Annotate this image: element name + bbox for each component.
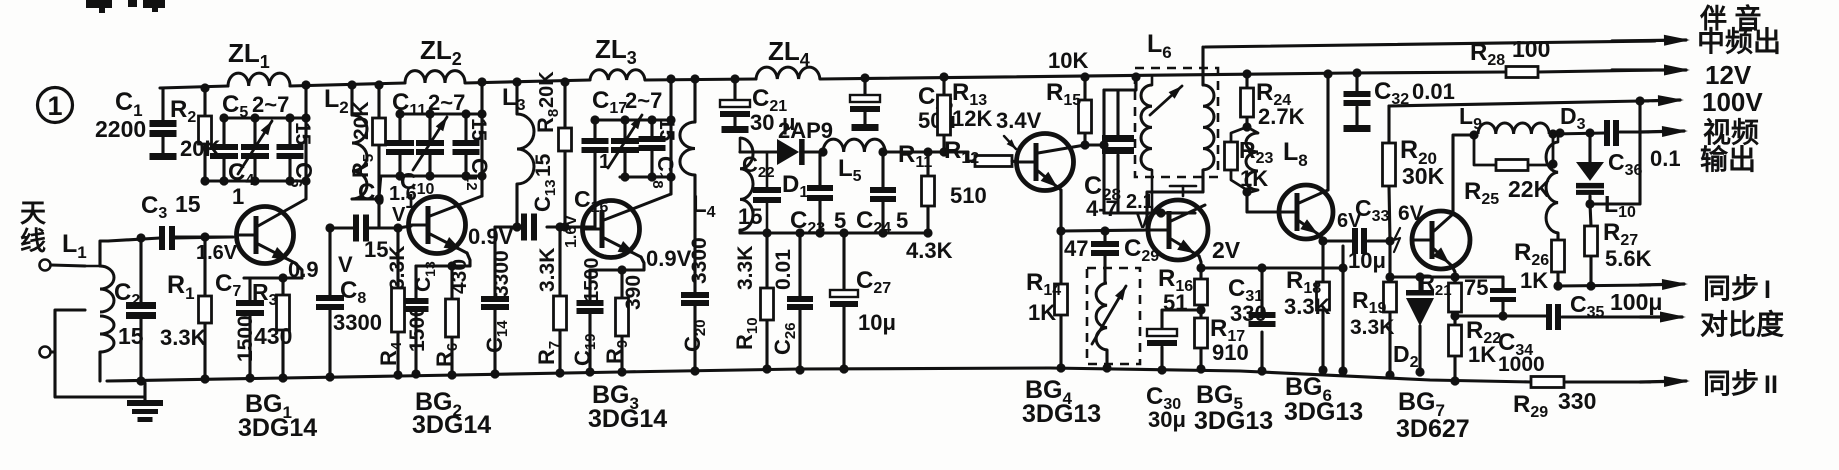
wire BG2 collector bbox=[480, 82, 483, 196]
transformer L6 primary bbox=[1151, 77, 1154, 85]
wire BG6 emitter to C33 bbox=[1323, 239, 1352, 242]
wire BG2 emitter bbox=[416, 253, 470, 266]
ground bbox=[143, 383, 146, 400]
capacitor C23 bbox=[818, 152, 821, 185]
wire BG7 emitter bbox=[1452, 266, 1455, 277]
capacitor C4 bbox=[222, 118, 225, 144]
svg-text:390: 390 bbox=[622, 275, 645, 310]
resistor R26 bbox=[1556, 233, 1559, 240]
svg-text:1K: 1K bbox=[1468, 342, 1496, 367]
capacitor C7 bbox=[248, 278, 251, 300]
svg-text:30: 30 bbox=[750, 110, 774, 135]
wire tank top bbox=[1104, 77, 1136, 90]
wire L6 secondary to BG5 base bbox=[1147, 170, 1203, 230]
svg-text:910: 910 bbox=[1212, 340, 1249, 365]
capacitor C19 bbox=[588, 270, 591, 300]
svg-text:输出: 输出 bbox=[1700, 143, 1756, 175]
svg-text:20K: 20K bbox=[536, 71, 558, 108]
capacitor C29 bbox=[1103, 231, 1106, 241]
svg-text:47: 47 bbox=[1064, 236, 1088, 261]
svg-text:3.3K: 3.3K bbox=[1284, 294, 1331, 319]
svg-text:2.1: 2.1 bbox=[1126, 191, 1154, 213]
capacitor C35 bbox=[1546, 304, 1552, 330]
svg-text:天: 天 bbox=[20, 198, 46, 228]
svg-text:0.9V: 0.9V bbox=[646, 246, 692, 271]
svg-text:15: 15 bbox=[118, 323, 144, 349]
contrast output arrow bbox=[1640, 315, 1682, 318]
svg-text:3.3K: 3.3K bbox=[386, 246, 409, 290]
core symbol bbox=[1170, 185, 1196, 188]
video output arrow bbox=[1640, 131, 1684, 132]
capacitor C16 bbox=[593, 120, 596, 138]
svg-text:10μ: 10μ bbox=[858, 310, 896, 335]
sound IF output arrow bbox=[1612, 40, 1686, 41]
svg-text:线: 线 bbox=[20, 226, 46, 256]
wire D3 to 100V bbox=[1590, 101, 1640, 204]
svg-text:22K: 22K bbox=[1508, 176, 1551, 202]
svg-text:10μ: 10μ bbox=[1348, 248, 1386, 273]
transistor BG5 bbox=[1148, 200, 1208, 260]
svg-text:30μ: 30μ bbox=[1148, 407, 1186, 432]
wire BG4 collector bbox=[1085, 143, 1104, 146]
svg-text:1500: 1500 bbox=[406, 305, 429, 352]
capacitor C30 bbox=[1162, 310, 1201, 329]
svg-text:5.6K: 5.6K bbox=[1605, 246, 1652, 271]
svg-text:1.6V: 1.6V bbox=[563, 215, 580, 248]
wire BG1 collector bbox=[304, 85, 307, 198]
svg-text:1: 1 bbox=[232, 184, 244, 209]
wire detector output bbox=[885, 150, 968, 153]
antenna terminal 1 bbox=[40, 260, 51, 271]
wire BG4 emitter bbox=[1059, 190, 1062, 231]
trap coil box bbox=[1087, 268, 1140, 364]
capacitor C12 bbox=[464, 114, 467, 140]
choke ZL3 bbox=[590, 70, 645, 80]
resistor R14 bbox=[1059, 231, 1062, 284]
svg-text:3300: 3300 bbox=[688, 237, 711, 284]
wire contrast line bbox=[1455, 314, 1546, 317]
wire antenna top bbox=[51, 265, 85, 266]
coil L4 bbox=[693, 79, 696, 122]
resistor R1 bbox=[203, 237, 206, 296]
capacitor C10 bbox=[398, 114, 401, 140]
transformer L6 secondary bbox=[1203, 85, 1214, 170]
wire BG3 base bbox=[584, 227, 587, 229]
wire sound IF output bbox=[1205, 41, 1655, 47]
wire BG5 emitter bus bbox=[1201, 266, 1343, 269]
svg-text:330: 330 bbox=[1230, 301, 1267, 326]
svg-text:3.3K: 3.3K bbox=[160, 325, 207, 350]
wire tuning bottom B2 bbox=[381, 174, 482, 177]
resistor R24 bbox=[1245, 74, 1248, 88]
capacitor C36 bbox=[1604, 120, 1610, 146]
svg-text:510: 510 bbox=[950, 183, 987, 208]
wire BG1 emitter bbox=[244, 263, 302, 278]
trimmer capacitor C5 bbox=[253, 118, 256, 144]
capacitor C27 bbox=[842, 233, 845, 290]
svg-text:同步: 同步 bbox=[1703, 273, 1759, 304]
resistor R20 bbox=[1387, 106, 1390, 143]
wire tuning bottom B1 bbox=[205, 179, 306, 182]
svg-text:1: 1 bbox=[47, 91, 62, 121]
svg-text:15: 15 bbox=[467, 118, 490, 142]
wire BG7 collector bbox=[1453, 135, 1474, 214]
wire detector top bbox=[740, 150, 777, 153]
coil L9 bbox=[1478, 123, 1549, 134]
capacitor C34 bbox=[1501, 277, 1504, 288]
capacitor C24 bbox=[881, 152, 884, 187]
100V output arrow bbox=[1640, 100, 1680, 101]
svg-text:3DG14: 3DG14 bbox=[588, 405, 667, 433]
svg-text:对比度: 对比度 bbox=[1700, 309, 1784, 340]
resistor R7 bbox=[558, 227, 561, 296]
svg-text:3.4V: 3.4V bbox=[996, 108, 1042, 133]
transistor BG7 bbox=[1412, 211, 1470, 269]
svg-text:15: 15 bbox=[532, 153, 555, 177]
wire tuning top A2 bbox=[400, 112, 482, 115]
resistor R19 bbox=[1388, 277, 1391, 282]
trimmer capacitor C11 bbox=[428, 114, 431, 140]
wire tank left bbox=[1102, 90, 1105, 213]
svg-text:4-7: 4-7 bbox=[1086, 196, 1118, 221]
resistor R6 bbox=[450, 266, 453, 299]
capacitor C14 bbox=[493, 227, 496, 296]
resistor R28 bbox=[1506, 67, 1538, 78]
diode D2 bbox=[1418, 277, 1421, 292]
wire tank bottom bbox=[1104, 211, 1195, 214]
svg-text:15: 15 bbox=[364, 237, 388, 262]
svg-text:12K: 12K bbox=[952, 106, 992, 131]
coil L8 bbox=[1247, 127, 1258, 133]
svg-text:3DG13: 3DG13 bbox=[1022, 400, 1101, 428]
capacitor C13 emitter bypass bbox=[414, 266, 417, 298]
svg-text:3.3K: 3.3K bbox=[1350, 316, 1394, 339]
svg-text:430: 430 bbox=[448, 259, 471, 294]
resistor R16 bbox=[1199, 268, 1202, 279]
wire after D1 bbox=[805, 150, 823, 153]
svg-text:V: V bbox=[392, 204, 406, 226]
capacitor C25 bbox=[863, 78, 866, 95]
sync II output arrow bbox=[1640, 381, 1686, 382]
capacitor C13 coupling bbox=[495, 225, 522, 228]
svg-text:2V: 2V bbox=[1212, 237, 1241, 263]
choke ZL1 bbox=[228, 73, 290, 86]
coil L2 bbox=[350, 85, 353, 115]
svg-text:3D627: 3D627 bbox=[1396, 415, 1470, 443]
resistor R21 bbox=[1453, 277, 1456, 283]
svg-text:1500: 1500 bbox=[581, 258, 603, 303]
wire video line bbox=[1553, 133, 1605, 134]
svg-text:1.6V: 1.6V bbox=[196, 242, 238, 264]
svg-text:3300: 3300 bbox=[333, 310, 382, 335]
resistor R4 bbox=[396, 228, 399, 288]
transformer L6 box bbox=[1135, 68, 1218, 177]
resistor R8 bbox=[563, 82, 566, 128]
sync I output arrow bbox=[1640, 284, 1684, 285]
svg-text:330: 330 bbox=[1558, 388, 1596, 414]
resistor R10 bbox=[765, 233, 768, 288]
wire 100V line bbox=[1389, 101, 1648, 106]
resistor R25 bbox=[1474, 135, 1496, 165]
resistor R2 bbox=[203, 88, 206, 116]
svg-text:2200: 2200 bbox=[95, 116, 146, 142]
svg-text:3.3K: 3.3K bbox=[536, 248, 559, 292]
svg-text:6V: 6V bbox=[1337, 210, 1362, 232]
svg-text:3300: 3300 bbox=[490, 250, 513, 297]
bolt mark bbox=[1394, 228, 1400, 252]
wire BG2 base line bbox=[398, 226, 411, 228]
svg-text:12V: 12V bbox=[1705, 60, 1752, 90]
wire BG3 collector bbox=[669, 79, 672, 194]
capacitor C6 bbox=[288, 118, 291, 144]
svg-text:100μ: 100μ bbox=[1610, 289, 1662, 315]
svg-text:同步: 同步 bbox=[1703, 368, 1759, 399]
svg-text:0.1: 0.1 bbox=[1650, 146, 1681, 171]
capacitor C21 bbox=[733, 79, 736, 100]
coil L5 bbox=[823, 139, 885, 152]
figure number circle 1 bbox=[38, 88, 73, 123]
resistor R15 bbox=[1083, 77, 1086, 100]
svg-text:15: 15 bbox=[175, 191, 201, 217]
svg-text:4.3K: 4.3K bbox=[906, 238, 953, 263]
svg-text:5: 5 bbox=[896, 208, 908, 233]
wire tuning top A1 bbox=[224, 116, 306, 119]
capacitor C28 bbox=[1116, 90, 1119, 136]
wire L2 R5 junction bbox=[352, 197, 379, 200]
cut-off text fragment bbox=[86, 0, 112, 8]
capacitor C31 bbox=[1260, 268, 1263, 312]
trap coil bbox=[1096, 283, 1107, 350]
coil L10 bbox=[1557, 134, 1560, 142]
svg-text:30K: 30K bbox=[1402, 163, 1445, 189]
svg-text:15: 15 bbox=[291, 122, 314, 146]
svg-text:20K: 20K bbox=[350, 101, 373, 140]
svg-text:V: V bbox=[338, 252, 353, 277]
svg-text:10K: 10K bbox=[1048, 48, 1088, 73]
svg-text:3DG14: 3DG14 bbox=[412, 411, 491, 439]
resistor R11 bbox=[926, 152, 929, 176]
capacitor C32 bbox=[1355, 73, 1358, 91]
svg-text:0.01: 0.01 bbox=[1412, 79, 1455, 104]
capacitor C1 bbox=[161, 88, 164, 120]
svg-text:1: 1 bbox=[599, 151, 610, 173]
resistor R12 bbox=[968, 152, 975, 161]
svg-text:0.9: 0.9 bbox=[288, 257, 319, 282]
svg-text:15: 15 bbox=[738, 204, 762, 229]
coil L1 bbox=[100, 266, 114, 312]
diode D1 bbox=[777, 139, 799, 165]
capacitor C20 bbox=[693, 230, 696, 292]
transistor BG3 bbox=[583, 201, 640, 258]
capacitor C3 bbox=[160, 236, 161, 239]
wire detector bottom bbox=[740, 230, 928, 233]
trap coil arrow bbox=[1092, 286, 1126, 344]
svg-text:430: 430 bbox=[254, 323, 292, 349]
svg-text:3DG14: 3DG14 bbox=[238, 414, 317, 442]
resistor R27 bbox=[1590, 204, 1591, 226]
wire BG5 emitter bbox=[1199, 256, 1201, 268]
wire antenna tap bbox=[55, 310, 145, 397]
resistor R23 bbox=[1231, 127, 1247, 142]
svg-text:I: I bbox=[1764, 276, 1771, 304]
trimmer capacitor C17 bbox=[623, 120, 626, 138]
wire L3 bottom bbox=[515, 184, 518, 227]
wire ground rail bbox=[107, 368, 1531, 382]
capacitor C26 bbox=[798, 233, 801, 296]
wire tuning top A3 bbox=[595, 118, 671, 121]
resistor R9 bbox=[620, 270, 623, 298]
capacitor C2 bbox=[139, 238, 142, 302]
svg-text:3.3K: 3.3K bbox=[734, 246, 757, 290]
wire sync I line bbox=[1558, 285, 1650, 286]
transistor BG6 bbox=[1279, 185, 1333, 239]
wire tuning bottom B3 bbox=[620, 175, 671, 178]
capacitor C22 bbox=[766, 152, 769, 187]
resistor R22 bbox=[1453, 316, 1456, 325]
svg-text:2AP9: 2AP9 bbox=[778, 118, 833, 143]
transformer L6 adjust arrow bbox=[1150, 86, 1182, 115]
capacitor C18 bbox=[650, 120, 653, 136]
transistor BG4 bbox=[1017, 134, 1074, 191]
svg-text:3DG13: 3DG13 bbox=[1194, 407, 1273, 435]
svg-text:2~7: 2~7 bbox=[428, 90, 465, 115]
wire to BG6 base bbox=[1247, 192, 1279, 212]
svg-text:1000: 1000 bbox=[1498, 353, 1545, 376]
resistor R17 bbox=[1199, 310, 1202, 318]
coil L3 bbox=[515, 82, 518, 114]
wire sync tap bbox=[1341, 246, 1344, 371]
svg-text:2~7: 2~7 bbox=[625, 88, 662, 113]
svg-text:2.7K: 2.7K bbox=[1258, 104, 1305, 129]
wire emitter bus BG7 bbox=[1390, 275, 1503, 278]
svg-text:2~7: 2~7 bbox=[252, 92, 289, 117]
transistor BG1 bbox=[237, 207, 294, 264]
resistor R29 bbox=[1531, 377, 1564, 388]
capacitor C33 bbox=[1352, 228, 1358, 254]
wire 12V supply rail bbox=[160, 86, 228, 88]
wire BG5 base line bbox=[1061, 230, 1147, 231]
antenna terminal 2 bbox=[40, 347, 51, 358]
wire L1 to base line bbox=[108, 238, 160, 241]
12V output arrow bbox=[1612, 68, 1686, 71]
svg-text:中频出: 中频出 bbox=[1697, 26, 1781, 57]
resistor R18 bbox=[1321, 241, 1324, 282]
resistor R3 bbox=[281, 278, 284, 295]
transistor BG2 bbox=[409, 197, 466, 254]
svg-text:1K: 1K bbox=[1520, 268, 1548, 293]
capacitor C9 bbox=[330, 226, 354, 229]
svg-text:1K: 1K bbox=[1028, 300, 1056, 325]
coil ZL4 secondary bbox=[740, 138, 753, 230]
svg-text:75: 75 bbox=[1464, 275, 1488, 300]
svg-text:100V: 100V bbox=[1702, 87, 1763, 117]
svg-text:II: II bbox=[1764, 371, 1778, 399]
wire BG6 emitter bbox=[1321, 236, 1323, 241]
resistor R13 bbox=[942, 77, 945, 95]
choke ZL2 bbox=[405, 71, 465, 83]
svg-text:100: 100 bbox=[1512, 36, 1550, 62]
choke ZL4 bbox=[756, 67, 820, 79]
resistor R5 bbox=[377, 85, 380, 118]
wire BG3 emitter bbox=[590, 257, 644, 270]
wire BG6 collector bbox=[1326, 74, 1329, 190]
capacitor C8 bbox=[328, 228, 331, 295]
svg-text:3DG13: 3DG13 bbox=[1284, 398, 1363, 426]
svg-text:0.01: 0.01 bbox=[772, 249, 795, 290]
wire BG1 base line bbox=[175, 235, 233, 238]
wire R20 column to emitter bus bbox=[1388, 241, 1391, 277]
